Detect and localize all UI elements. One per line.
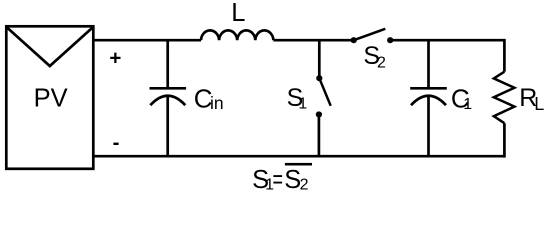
wire top rail PV to node of Cin and L (94, 39, 202, 42)
wire bottom rail (94, 155, 505, 158)
wire top rail L to S2 (273, 39, 353, 42)
svg-text:L: L (231, 0, 245, 27)
+ terminal label (109, 47, 121, 70)
label L (231, 0, 245, 27)
PV label (34, 85, 68, 113)
svg-text:+: + (109, 47, 121, 70)
label Cin (194, 83, 224, 113)
switch S1 (316, 40, 331, 156)
inductor L (201, 30, 273, 40)
- terminal label (113, 131, 120, 154)
label RL (519, 84, 544, 114)
PV module PV (6, 26, 93, 169)
svg-text:-: - (113, 131, 120, 154)
capacitor C1 (410, 40, 447, 156)
svg-text:=: = (273, 166, 284, 194)
svg-text:in: in (210, 93, 224, 113)
label S2 (363, 42, 386, 71)
svg-text:2: 2 (377, 54, 386, 71)
svg-text:PV: PV (34, 85, 68, 113)
resistor RL (494, 39, 515, 158)
switch S2 (351, 29, 394, 44)
svg-text:L: L (534, 94, 544, 114)
svg-text:2: 2 (300, 176, 309, 193)
label S1 (287, 84, 308, 112)
label C1 (451, 83, 472, 113)
equation S1 = NOT S2 (252, 163, 312, 194)
svg-text:1: 1 (463, 96, 472, 113)
wire top rail S2 to RL corner (390, 39, 504, 42)
svg-text:1: 1 (298, 95, 307, 112)
capacitor Cin (150, 40, 187, 156)
